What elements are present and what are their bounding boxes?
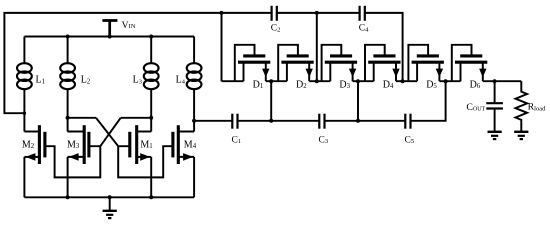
junction dot VIN stem on rail	[108, 35, 112, 39]
junction dot M1 source on rail	[149, 195, 153, 199]
svg-text:M4: M4	[184, 139, 197, 150]
wire node C horizontal to cross	[121, 117, 152, 119]
svg-text:Rload: Rload	[528, 102, 546, 113]
wire L1 bottom lead to M2 drain	[23, 89, 25, 131]
wire node D down to M4 drain	[193, 121, 195, 132]
ground (oscillator)	[103, 197, 117, 218]
transistor D4 (diode-connected)	[365, 45, 401, 81]
resistor Rload	[516, 81, 528, 132]
wire pump output line from D6 source to Rload	[483, 80, 522, 82]
wire outer feedback loop (node A top wire to L1/M2 drain)	[4, 13, 271, 113]
wire cross-couple diagonal node C to M3 gate	[89, 118, 121, 146]
wire L3 bottom lead to M1 drain	[150, 89, 152, 131]
wire L4 top lead	[193, 37, 195, 64]
svg-text:D3: D3	[339, 79, 350, 90]
svg-text:L2: L2	[81, 75, 91, 86]
junction dot D1/D2 node top	[269, 79, 273, 83]
ground (Rload)	[514, 132, 528, 139]
junction dot D3/D4 node top	[356, 79, 360, 83]
junction dot rail-L3	[149, 35, 153, 39]
wire bottom rail C1 to C3	[238, 120, 320, 122]
junction dot D2/D3 node top	[315, 11, 319, 15]
transistor D2 (diode-connected)	[278, 45, 314, 81]
wire L4 bottom lead to node D	[193, 89, 195, 120]
junction dot outer loop joins L1 lead	[23, 112, 26, 115]
junction dot ground tap on rail	[108, 195, 112, 199]
svg-text:C1: C1	[232, 135, 242, 145]
wire pump line D1 drain segment	[222, 80, 244, 82]
junction dot node B (L2/M3 drain/cross-wire)	[66, 116, 70, 120]
wire L2 bottom lead to M3 drain	[67, 89, 69, 131]
wire pump line D1 source to D2 drain	[266, 80, 287, 82]
wire D3/D4 node down to bottom rail	[357, 81, 359, 121]
wire common-source ground rail	[24, 196, 194, 198]
junction dot M3 source on rail	[66, 195, 70, 199]
junction dot D4/D5 node	[401, 79, 405, 83]
capacitor C2	[272, 6, 277, 21]
wire L1 top lead	[23, 37, 25, 64]
junction dot D1/D2 node bottom	[269, 119, 273, 123]
svg-text:D5: D5	[426, 79, 437, 90]
junction dot node D (L4/M4 drain/C1)	[192, 119, 196, 123]
wire top rail mid node to C4 left	[317, 12, 360, 14]
svg-text:D6: D6	[470, 79, 481, 90]
wire M2 source to ground rail	[23, 157, 25, 197]
wire VIN supply rail	[24, 36, 194, 38]
svg-text:C4: C4	[359, 24, 369, 34]
capacitor C1	[232, 114, 237, 129]
wire M1 source to ground rail	[150, 157, 152, 197]
wire M4 gate link to M1 gate node	[118, 146, 173, 177]
junction dot node A on top wire	[220, 11, 224, 15]
transistor M2	[24, 125, 45, 164]
svg-text:M1: M1	[140, 139, 152, 150]
inductor L2	[60, 63, 75, 89]
junction dot node C (L3/M1 drain/cross-wire)	[149, 116, 153, 120]
wire M2 gate link to M3 gate node	[45, 146, 100, 177]
junction dot rail-L2	[66, 35, 70, 39]
svg-text:L1: L1	[36, 75, 46, 86]
svg-text:C3: C3	[319, 135, 329, 145]
wire M4 source to ground rail	[193, 157, 195, 197]
wire pump line D2 source to D3 drain	[309, 80, 330, 82]
capacitor C4	[360, 6, 365, 21]
transistor M3	[68, 125, 89, 164]
svg-text:C5: C5	[405, 135, 415, 145]
svg-text:D4: D4	[383, 79, 394, 90]
wire cross-couple diagonal node B to M1 gate	[96, 118, 130, 146]
svg-text:D2: D2	[296, 79, 307, 90]
inductor L4	[187, 63, 202, 89]
wire D4/D5 node up to top wire corner	[365, 13, 403, 81]
wire node B horizontal to cross	[68, 117, 96, 119]
power terminal VIN (T-bar)	[102, 21, 117, 37]
svg-text:VIN: VIN	[122, 20, 136, 31]
wire pump line D5 source to D6 drain	[439, 80, 460, 82]
wire bottom rail C3 to C5	[325, 120, 406, 122]
ground (COUT)	[488, 132, 502, 139]
transistor M1	[130, 125, 151, 164]
wire D5/D6 node down to bottom wire corner	[411, 81, 446, 121]
svg-text:M3: M3	[67, 139, 80, 150]
inductor L1	[17, 63, 32, 89]
wire node A down to D1 drain	[221, 13, 223, 81]
wire bottom rail node D to C1	[194, 120, 232, 122]
svg-text:L4: L4	[176, 75, 186, 86]
wire D2/D3 node up to top rail	[316, 13, 318, 81]
transistor D5 (diode-connected)	[408, 45, 444, 81]
capacitor C5	[405, 114, 410, 129]
svg-text:C2: C2	[271, 24, 281, 34]
wire L2 top lead	[67, 37, 69, 64]
junction dot D3/D4 node bottom	[356, 119, 360, 123]
wire top rail C2 right to mid node	[277, 12, 317, 14]
svg-text:D1: D1	[253, 79, 264, 90]
transistor D3 (diode-connected)	[322, 45, 358, 81]
svg-text:COUT: COUT	[466, 102, 485, 113]
transistor D1 (diode-connected)	[235, 45, 270, 81]
wire pump line D3 source to D4 drain	[353, 80, 374, 82]
svg-text:M2: M2	[22, 139, 35, 150]
junction dot D5/D6 node	[444, 79, 448, 83]
transistor M4	[173, 125, 194, 164]
wire L3 top lead	[150, 37, 152, 64]
svg-text:L3: L3	[133, 75, 142, 86]
capacitor C3	[319, 114, 324, 129]
transistor D6 (diode-connected)	[452, 45, 488, 81]
junction dot output node (COUT tap)	[493, 79, 497, 83]
junction dot D2/D3 node bottom	[315, 79, 319, 83]
wire M3 source to ground rail	[67, 157, 69, 197]
wire D1/D2 node down to bottom rail	[270, 81, 272, 121]
wire pump line D4 source to D5 drain	[396, 80, 417, 82]
capacitor COUT	[486, 81, 503, 132]
inductor L3	[144, 63, 159, 89]
